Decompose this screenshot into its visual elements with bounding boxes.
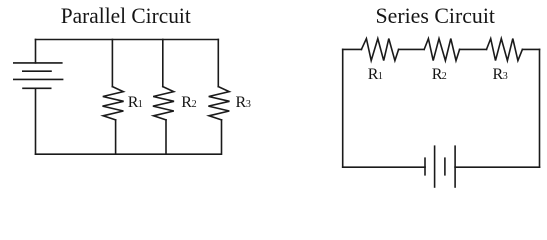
svg-text:1: 1	[378, 71, 383, 82]
svg-text:Parallel Circuit: Parallel Circuit	[61, 3, 192, 28]
svg-text:3: 3	[246, 99, 251, 110]
svg-text:R: R	[236, 94, 247, 111]
svg-text:Series Circuit: Series Circuit	[376, 3, 496, 28]
svg-text:2: 2	[192, 99, 197, 110]
svg-text:1: 1	[138, 99, 143, 110]
svg-text:R: R	[181, 94, 192, 111]
svg-text:2: 2	[442, 71, 447, 82]
svg-text:3: 3	[503, 71, 508, 82]
